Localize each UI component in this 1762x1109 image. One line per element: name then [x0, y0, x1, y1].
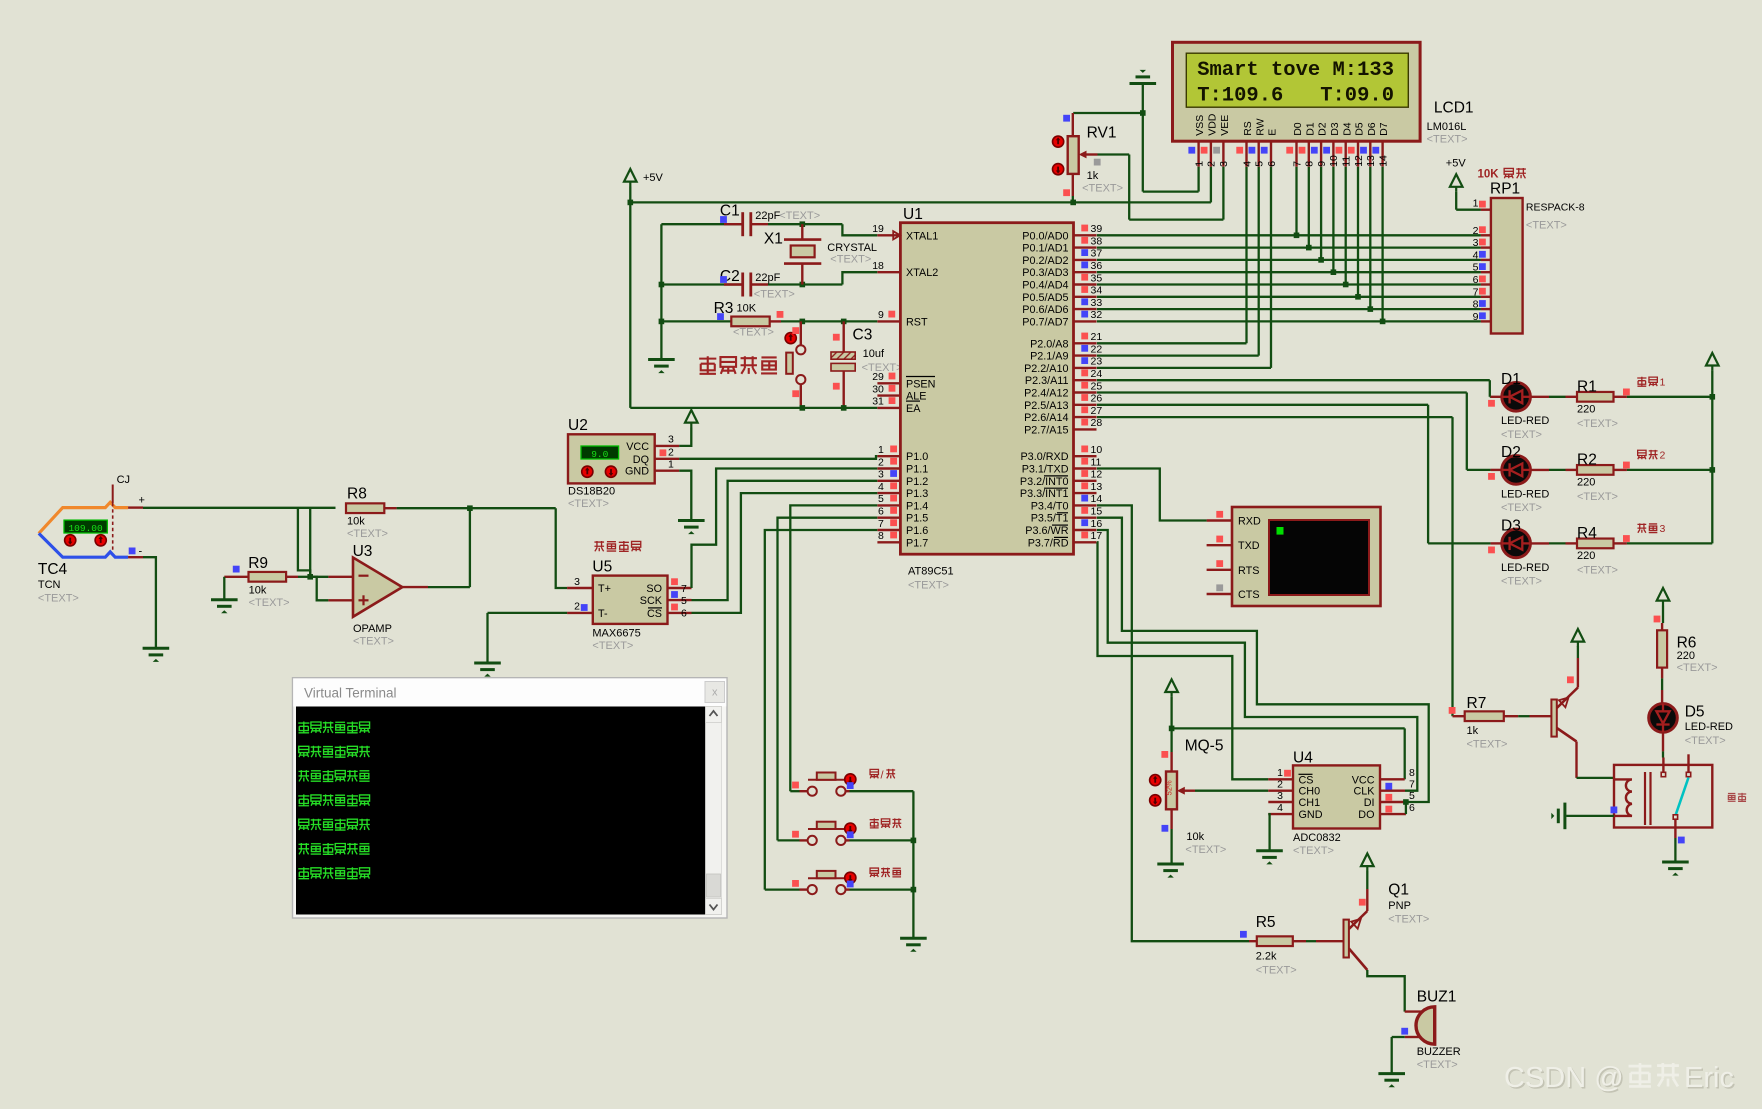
- svg-text:T+: T+: [598, 583, 611, 595]
- resistor R8 10k feedback: [346, 503, 384, 513]
- svg-text:3: 3: [574, 576, 580, 588]
- svg-text:2: 2: [1206, 161, 1218, 167]
- svg-text:P0.3/AD3: P0.3/AD3: [1022, 267, 1068, 279]
- wire U1 P3.5 to U4 DI/DO: [1097, 518, 1429, 802]
- U2 pin GND 1: [655, 470, 680, 472]
- lcd pin stubs and numbers: [1197, 141, 1199, 167]
- MQ-5 wiper to U4 CH0: [1177, 787, 1185, 795]
- svg-text:<TEXT>: <TEXT>: [1501, 429, 1542, 441]
- label button1 kai/guan: [870, 769, 878, 778]
- svg-text:<TEXT>: <TEXT>: [592, 640, 633, 652]
- svg-text:<TEXT>: <TEXT>: [568, 498, 609, 510]
- svg-text:P2.7/A15: P2.7/A15: [1024, 424, 1068, 436]
- svg-text:P1.7: P1.7: [906, 537, 928, 549]
- wire C1 left lead to ground rail: [661, 223, 742, 225]
- U1 pin P2.5/A13 26: [1074, 404, 1097, 406]
- svg-text:RST: RST: [906, 316, 928, 328]
- instrument virtual terminal box: [1232, 507, 1381, 606]
- svg-text:VCC: VCC: [626, 441, 649, 453]
- svg-text:13: 13: [1365, 155, 1377, 167]
- svg-text:30: 30: [872, 383, 884, 395]
- svg-text:9: 9: [1473, 311, 1479, 323]
- svg-text:R9: R9: [248, 555, 268, 572]
- svg-text:U1: U1: [903, 206, 923, 223]
- svg-text:8: 8: [1473, 299, 1479, 311]
- svg-text:T:109.6 T:09.0: T:109.6 T:09.0: [1197, 85, 1394, 108]
- wire U5 SCK to U1 P1.2: [692, 481, 878, 600]
- svg-text:CRYSTAL: CRYSTAL: [827, 242, 877, 254]
- virtual terminal close button: [705, 682, 725, 703]
- svg-text:D1: D1: [1501, 371, 1521, 388]
- U1 P3 overlines: [1044, 475, 1068, 477]
- U2 pin VCC 3: [655, 445, 680, 447]
- svg-text:14: 14: [1091, 493, 1103, 505]
- wire U1 P1.4 to button1: [790, 505, 877, 791]
- U5 pin SCK 5: [668, 599, 692, 601]
- wire XTAL2 jog into U1: [842, 272, 877, 284]
- wire U1 P2.6 to R7: [1097, 416, 1453, 418]
- wire U5 SO to U1 P1.1: [692, 469, 878, 589]
- RP1 pin 1: [1481, 208, 1491, 210]
- power +5V top left: [624, 169, 637, 187]
- svg-text:32: 32: [1091, 309, 1103, 321]
- U4 pin CH0 2: [1268, 790, 1293, 792]
- U1 pin P0.3/AD3 36: [1074, 271, 1097, 273]
- resistor R6 220: [1657, 588, 1670, 606]
- svg-text:<TEXT>: <TEXT>: [733, 326, 774, 338]
- svg-text:34: 34: [1091, 285, 1103, 297]
- svg-text:10: 10: [1091, 444, 1103, 456]
- svg-text:2: 2: [1277, 779, 1283, 791]
- relay RL coil and switch (gas valve): [1614, 765, 1712, 828]
- relay switch common terminal from D5: [1662, 758, 1664, 773]
- svg-text:8: 8: [1409, 767, 1415, 779]
- U4 pin CLK 7: [1380, 790, 1405, 792]
- U2 display 9.0: [581, 446, 619, 459]
- chip U2 DS18B20: [568, 434, 655, 483]
- U1 pin P1.6 7: [877, 529, 900, 531]
- svg-text:6: 6: [1409, 802, 1415, 814]
- svg-text:1: 1: [1660, 377, 1666, 389]
- svg-text:4: 4: [1473, 249, 1479, 261]
- svg-text:<TEXT>: <TEXT>: [1526, 219, 1567, 231]
- svg-text:D2: D2: [1317, 122, 1329, 136]
- wire LCD VSS to ground: [1143, 190, 1199, 192]
- svg-text:220: 220: [1577, 550, 1595, 562]
- svg-text:9: 9: [1316, 161, 1328, 167]
- U1 pin P1.2 3: [877, 480, 900, 482]
- svg-text:7: 7: [1473, 286, 1479, 298]
- svg-text:4: 4: [1241, 161, 1253, 167]
- svg-text:1: 1: [1193, 161, 1205, 167]
- svg-text:P1.5: P1.5: [906, 513, 928, 525]
- svg-text:10k: 10k: [249, 584, 267, 596]
- U1 pin P2.7/A15 28: [1074, 428, 1097, 430]
- potentiometer RV1 1k: [1073, 112, 1143, 114]
- svg-text:R8: R8: [347, 485, 367, 502]
- U1 pin P0.7/AD7 32: [1074, 320, 1097, 322]
- svg-text:D0: D0: [1292, 122, 1304, 136]
- led D5 LED-RED: [1649, 704, 1678, 733]
- virtual terminal scrollbar: [706, 707, 722, 915]
- svg-text:1: 1: [1277, 767, 1283, 779]
- U5 pin SO 7: [668, 587, 692, 589]
- svg-text:220: 220: [1577, 477, 1595, 489]
- svg-text:D1: D1: [1304, 122, 1316, 136]
- wire D5 to relay: [1662, 732, 1664, 751]
- svg-text:XTAL1: XTAL1: [906, 230, 938, 242]
- led D1 LED-RED: [1502, 383, 1531, 412]
- svg-text:9: 9: [878, 309, 884, 321]
- svg-text:CH0: CH0: [1299, 786, 1321, 798]
- svg-text:8: 8: [1304, 161, 1316, 167]
- svg-text:22pF: 22pF: [755, 210, 780, 222]
- svg-text:U5: U5: [592, 559, 612, 576]
- svg-text:4: 4: [878, 481, 884, 493]
- RP1 +5V power: [1450, 174, 1463, 192]
- svg-text:P1.6: P1.6: [906, 525, 928, 537]
- svg-text:R1: R1: [1577, 378, 1597, 395]
- virtual terminal screen: [296, 707, 706, 915]
- svg-text:P3.2/INT0: P3.2/INT0: [1020, 476, 1069, 488]
- svg-text:U4: U4: [1293, 750, 1313, 767]
- svg-text:RTS: RTS: [1238, 565, 1259, 577]
- wire EA bottom rail: [630, 407, 877, 409]
- svg-text:Smart tove M:133: Smart tove M:133: [1197, 59, 1394, 82]
- push button reset switch: [800, 321, 802, 345]
- wire U4 GND to ground: [1268, 814, 1269, 850]
- U1 pin P1.1 2: [877, 467, 900, 469]
- svg-text:Virtual Terminal: Virtual Terminal: [304, 686, 397, 701]
- buzzer bottom lead to ground: [1405, 1036, 1420, 1038]
- svg-text:15: 15: [1091, 506, 1103, 518]
- svg-text:P2.1/A9: P2.1/A9: [1030, 351, 1068, 363]
- U2 indicators: [582, 466, 593, 477]
- svg-text:10: 10: [1328, 155, 1340, 167]
- svg-text:<TEXT>: <TEXT>: [754, 289, 795, 301]
- svg-text:1: 1: [1473, 198, 1479, 210]
- U1 pin P3.4/T0 14: [1074, 504, 1097, 506]
- svg-text:<TEXT>: <TEXT>: [779, 210, 820, 222]
- svg-text:6: 6: [681, 607, 687, 619]
- Q1 collector to +5V: [1366, 889, 1368, 911]
- svg-text:5: 5: [878, 493, 884, 505]
- svg-text:19: 19: [872, 223, 884, 235]
- svg-text:P3.5/T1: P3.5/T1: [1031, 513, 1069, 525]
- svg-text:P3.1/TXD: P3.1/TXD: [1022, 464, 1069, 476]
- svg-text:25: 25: [1091, 380, 1103, 392]
- U4 pin CS 1: [1268, 778, 1293, 780]
- U1 pin XTAL1 19: [877, 234, 900, 236]
- svg-text:LED-RED: LED-RED: [1501, 488, 1549, 500]
- wire minus node to opamp: [310, 576, 328, 578]
- svg-text:SO: SO: [646, 583, 662, 595]
- TC4 indicators: [65, 535, 76, 546]
- svg-text:C3: C3: [853, 326, 873, 343]
- lcd LCD1 LM016L body: [1173, 42, 1421, 141]
- svg-text:P0.0/AD0: P0.0/AD0: [1022, 230, 1068, 242]
- svg-text:9.0: 9.0: [591, 449, 608, 460]
- svg-text:RXD: RXD: [1238, 516, 1261, 528]
- svg-text:5: 5: [1409, 790, 1415, 802]
- label button2 huo li qiang: [870, 818, 879, 828]
- svg-text:LED-RED: LED-RED: [1501, 415, 1549, 427]
- opamp U3: [353, 558, 402, 617]
- U1 pin P0.2/AD2 37: [1074, 259, 1097, 261]
- wire +5V vertical rail x630: [629, 187, 631, 408]
- wire node to opamp plus input: [310, 577, 328, 601]
- svg-text:1: 1: [668, 459, 674, 471]
- relay coil: [1615, 779, 1632, 816]
- svg-text:11: 11: [1341, 156, 1353, 167]
- power +5V for LED column: [1706, 353, 1719, 371]
- U1 pin P0.0/AD0 39: [1074, 234, 1097, 236]
- svg-text:VSS: VSS: [1194, 115, 1206, 136]
- wire U2 DQ to U1 P1.0: [679, 456, 877, 459]
- U1 pin P1.0 1: [877, 455, 900, 457]
- wire button common column to ground: [912, 791, 914, 937]
- svg-text:CH1: CH1: [1299, 797, 1321, 809]
- svg-text:22: 22: [1091, 343, 1103, 355]
- chip U5 MAX6675: [593, 576, 668, 624]
- U5 pin CS 6: [668, 612, 692, 614]
- U4 pin VCC 8: [1380, 778, 1405, 780]
- U1 pin P0.5/AD5 34: [1074, 296, 1097, 298]
- svg-text:2.2k: 2.2k: [1256, 951, 1277, 963]
- svg-text:35: 35: [1091, 272, 1103, 284]
- U1 pin P2.0/A8 21: [1074, 342, 1097, 344]
- capacitor C1: [741, 212, 744, 236]
- svg-text:R5: R5: [1256, 914, 1276, 931]
- instrument pin RXD: [1207, 519, 1232, 521]
- svg-text:<TEXT>: <TEXT>: [249, 597, 290, 609]
- svg-text:<TEXT>: <TEXT>: [1388, 913, 1429, 925]
- U1 pin P3.5/T1 15: [1074, 517, 1097, 519]
- svg-text:10k: 10k: [1186, 831, 1204, 843]
- U1 pin P0.6/AD6 33: [1074, 308, 1097, 310]
- svg-text:D6: D6: [1366, 122, 1378, 136]
- svg-text:10K: 10K: [737, 303, 757, 315]
- svg-text:R4: R4: [1577, 525, 1597, 542]
- svg-text:<TEXT>: <TEXT>: [1677, 662, 1718, 674]
- svg-text:D2: D2: [1501, 444, 1521, 461]
- relay core bars: [1644, 772, 1646, 825]
- svg-text:TC4: TC4: [38, 561, 68, 578]
- svg-text:6: 6: [878, 506, 884, 518]
- U1 pin P0.1/AD1 38: [1074, 246, 1097, 248]
- svg-text:7: 7: [681, 583, 687, 595]
- wire U5 CS to U1 P1.3: [692, 493, 878, 613]
- opamp output wire: [402, 586, 428, 588]
- wire C2 right to XTAL2 node: [751, 283, 768, 285]
- svg-text:<TEXT>: <TEXT>: [1082, 183, 1123, 195]
- instrument pin TXD: [1207, 544, 1232, 546]
- wire TC4 plus to R8: [143, 507, 336, 509]
- svg-text:24: 24: [1091, 368, 1103, 380]
- resistor R2 220: [1530, 469, 1549, 471]
- buzzer BUZ1: [1416, 1007, 1435, 1044]
- transistor collector to +5V: [1577, 658, 1579, 688]
- svg-text:36: 36: [1091, 260, 1103, 272]
- svg-text:GND: GND: [1299, 809, 1323, 821]
- U4 pin CH1 3: [1268, 801, 1293, 803]
- svg-text:TXD: TXD: [1238, 540, 1260, 552]
- svg-text:P0.1/AD1: P0.1/AD1: [1022, 243, 1068, 255]
- svg-text:Q1: Q1: [1388, 881, 1409, 898]
- svg-text:DO: DO: [1358, 809, 1374, 821]
- U1 pin P2.1/A9 22: [1074, 354, 1097, 356]
- relay switch NC stub: [1687, 754, 1689, 772]
- svg-text:CSDN @: CSDN @: [1504, 1062, 1624, 1094]
- resistor R1 220: [1530, 396, 1549, 398]
- resistor R3 10K: [659, 319, 665, 325]
- potentiometer MQ-5 10k: [1170, 752, 1172, 772]
- svg-text:RP1: RP1: [1490, 180, 1520, 197]
- svg-text:BUZZER: BUZZER: [1417, 1046, 1461, 1058]
- svg-text:+: +: [139, 495, 145, 507]
- svg-text:OPAMP: OPAMP: [353, 623, 392, 635]
- U5 pin T+ 3: [567, 587, 593, 589]
- svg-text:P2.6/A14: P2.6/A14: [1024, 412, 1068, 424]
- respack RP1: [1491, 198, 1523, 334]
- thermocouple TC4: [39, 502, 128, 533]
- svg-text:P1.3: P1.3: [906, 488, 928, 500]
- svg-text:1k: 1k: [1087, 170, 1099, 182]
- svg-text:LED-RED: LED-RED: [1685, 721, 1733, 733]
- svg-text:X1: X1: [764, 230, 783, 247]
- svg-text:P2.2/A10: P2.2/A10: [1024, 363, 1068, 375]
- relay coil return to sideways ground: [1566, 815, 1614, 817]
- svg-text:<TEXT>: <TEXT>: [1501, 502, 1542, 514]
- svg-text:5: 5: [1254, 161, 1266, 167]
- svg-text:<TEXT>: <TEXT>: [347, 528, 388, 540]
- resistor R5 2.2k: [1240, 931, 1247, 938]
- virtual terminal text lines gas leak disconnect: [298, 722, 309, 734]
- svg-text:7: 7: [878, 518, 884, 530]
- svg-text:P0.6/AD6: P0.6/AD6: [1022, 304, 1068, 316]
- svg-text:U2: U2: [568, 417, 588, 434]
- capacitor C3 10uf electrolytic: [843, 321, 845, 352]
- U1 pin EA 31: [877, 407, 900, 409]
- svg-text:14: 14: [1377, 155, 1389, 167]
- svg-text:VDD: VDD: [1207, 113, 1219, 136]
- svg-text:<TEXT>: <TEXT>: [1185, 844, 1226, 856]
- U1 pin P3.7/RD 17: [1074, 541, 1097, 543]
- svg-text:P1.4: P1.4: [906, 500, 928, 512]
- svg-text:-: -: [139, 545, 143, 557]
- push button at y840: [778, 839, 800, 841]
- RP1 pins 2-9: [1481, 234, 1491, 236]
- svg-text:3: 3: [1660, 523, 1666, 535]
- svg-text:VEE: VEE: [1219, 115, 1231, 136]
- resistor R4 220: [1530, 542, 1549, 544]
- svg-text:P0.5/AD5: P0.5/AD5: [1022, 292, 1068, 304]
- U2 VCC to +5V: [685, 410, 698, 428]
- svg-text:11: 11: [1091, 456, 1102, 468]
- svg-text:GND: GND: [625, 466, 649, 478]
- svg-text:x: x: [712, 687, 718, 699]
- U1 pin P3.3/INT1 13: [1074, 492, 1097, 494]
- wire LCD D0-D7 drops to P0 bus: [1295, 167, 1297, 236]
- svg-text:SCK: SCK: [640, 595, 663, 607]
- svg-text:DI: DI: [1364, 797, 1375, 809]
- svg-text:CJ: CJ: [117, 474, 130, 486]
- U5 pin T- 2: [567, 612, 593, 614]
- svg-text:<TEXT>: <TEXT>: [1293, 845, 1334, 857]
- wire R8 right to U5 T+: [384, 507, 396, 509]
- svg-text:D3: D3: [1501, 518, 1521, 535]
- svg-text:3: 3: [1277, 790, 1283, 802]
- svg-text:P2.5/A13: P2.5/A13: [1024, 400, 1068, 412]
- svg-text:P0.4/AD4: P0.4/AD4: [1022, 280, 1068, 292]
- RV1 indicators: [1053, 136, 1064, 147]
- U1 pin P3.6/WR 16: [1074, 529, 1097, 531]
- wire R7 to transistor base: [1504, 715, 1518, 717]
- power +5V MQ5 and U4 VCC rail: [1165, 679, 1178, 697]
- U1 pin P2.4/A12 25: [1074, 391, 1097, 393]
- wire U1 P3.4 to R5 buzzer drive: [1097, 505, 1249, 941]
- lcd screen: [1186, 53, 1408, 107]
- svg-text:EA: EA: [906, 403, 921, 415]
- U1 pin P1.4 5: [877, 504, 900, 506]
- instrument pin RTS: [1207, 569, 1232, 571]
- chip U1 AT89C51: [900, 223, 1073, 555]
- svg-text:21: 21: [1091, 331, 1103, 343]
- svg-text:RESPACK-8: RESPACK-8: [1526, 202, 1585, 214]
- svg-text:P3.3/INT1: P3.3/INT1: [1020, 488, 1069, 500]
- U1 pin ALE 30: [877, 394, 900, 396]
- svg-text:AT89C51: AT89C51: [908, 566, 954, 578]
- svg-text:RV1: RV1: [1087, 125, 1117, 142]
- svg-text:1: 1: [878, 444, 884, 456]
- wire U1 P1.5 to button2: [778, 518, 878, 841]
- svg-text:MQ-5: MQ-5: [1185, 738, 1224, 755]
- svg-text:29: 29: [872, 371, 884, 383]
- transistor emitter to relay coil: [1575, 742, 1577, 778]
- svg-text:<TEXT>: <TEXT>: [908, 580, 949, 592]
- svg-text:31: 31: [872, 396, 884, 408]
- U1 pin P1.3 4: [877, 492, 900, 494]
- svg-text:109.00: 109.00: [68, 523, 103, 534]
- wire U1 P3.7 to U4 CS: [1097, 542, 1268, 779]
- svg-text:2: 2: [668, 447, 674, 459]
- U1 pin P1.5 6: [877, 517, 900, 519]
- wire +5V rail y202 to RV1 and LCD VDD: [630, 201, 1211, 203]
- svg-text:DS18B20: DS18B20: [568, 486, 615, 498]
- svg-text:2: 2: [878, 456, 884, 468]
- wire U1 P1.6 to button3: [765, 530, 878, 890]
- svg-text:LM016L: LM016L: [1427, 121, 1467, 133]
- svg-text:38: 38: [1091, 235, 1103, 247]
- svg-text:13: 13: [1091, 481, 1103, 493]
- svg-text:52%: 52%: [1165, 780, 1174, 795]
- svg-text:P3.0/RXD: P3.0/RXD: [1020, 451, 1068, 463]
- label button3 huo li ruo: [870, 868, 878, 877]
- svg-text:D4: D4: [1341, 122, 1353, 136]
- svg-text:<TEXT>: <TEXT>: [1467, 739, 1508, 751]
- U1 pin P3.2/INT0 12: [1074, 480, 1097, 482]
- svg-text:12: 12: [1091, 469, 1103, 481]
- label huoli3: [1637, 523, 1646, 532]
- svg-text:ADC0832: ADC0832: [1293, 832, 1341, 844]
- svg-text:<TEXT>: <TEXT>: [1256, 965, 1297, 977]
- svg-text:D3: D3: [1329, 122, 1341, 136]
- wire U1 TXD to terminal RXD: [1097, 469, 1207, 521]
- svg-text:LED-RED: LED-RED: [1501, 562, 1549, 574]
- label huoli1: [1637, 377, 1646, 387]
- resistor R9 10k: [224, 576, 248, 578]
- svg-text:6: 6: [1473, 274, 1479, 286]
